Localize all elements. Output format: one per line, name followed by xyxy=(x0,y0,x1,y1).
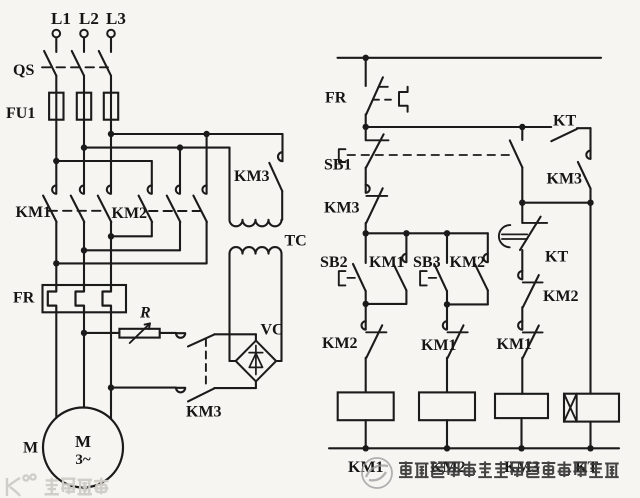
pushbutton SB3 actuator E xyxy=(420,271,427,285)
node A right xyxy=(587,200,593,206)
wire row to SB2 xyxy=(365,233,367,263)
node R tap on phase2 xyxy=(81,330,87,336)
coil KT body xyxy=(564,394,619,422)
wire KM1 pole3 to FR xyxy=(110,222,112,285)
node L3 feeder junction xyxy=(108,131,114,137)
switch QS pole 2 blade xyxy=(72,51,84,76)
node SB2 branch join xyxy=(363,301,369,307)
wire brake contact to VC + terminal xyxy=(214,333,256,335)
svg-text:3~: 3~ xyxy=(75,452,91,468)
KM1 gang dashed link xyxy=(49,210,105,212)
wire L1 fuse to KM1 contact 1 xyxy=(55,120,57,186)
fuse FU1 pole 1 xyxy=(49,93,63,120)
wire KM2 pole1 to phase3 xyxy=(111,235,152,237)
svg-text:KM3: KM3 xyxy=(324,200,360,217)
svg-text:TC: TC xyxy=(285,233,307,250)
transformer TC primary winding xyxy=(230,220,282,227)
contact KM3 (brake upper) fixed hook xyxy=(176,333,185,338)
node bottom rail / KM3 coil xyxy=(518,445,524,451)
pushbutton SB1 NO blade xyxy=(510,140,523,167)
switch QS pole 1 blade xyxy=(44,51,56,76)
resistor R adjustment arrow xyxy=(130,323,150,343)
wire tap down to KM2 contact 3 xyxy=(206,134,208,185)
node phase1 / KM2 join xyxy=(53,260,59,266)
svg-text:R: R xyxy=(139,305,151,322)
KM2 gang dashed link xyxy=(149,210,201,212)
contact KM1 NC fixed hook (braking) xyxy=(518,321,522,329)
wire KM3 coil to bottom rail xyxy=(520,418,522,448)
contact FR seat bar xyxy=(379,86,388,88)
wire QS pole 2 to fuse xyxy=(83,76,85,93)
wire KM3 to TC primary xyxy=(281,191,283,220)
svg-text:VC: VC xyxy=(261,322,284,339)
contact KM2 pole 2 blade xyxy=(167,196,181,222)
wire KM2 aux to join xyxy=(487,291,489,305)
contact KM1 aux blade (NO) xyxy=(394,264,407,290)
contact KM3 aux blade (NO) xyxy=(578,162,591,189)
fuse FU1 pole 3 xyxy=(104,93,118,120)
watermark corner logo xyxy=(7,474,108,496)
wire tap down to KM2 contact 1 xyxy=(151,161,153,185)
wire through fuse 1 xyxy=(55,93,57,120)
svg-text:KM1: KM1 xyxy=(421,337,457,354)
node bottom rail / KM1 coil xyxy=(363,445,369,451)
contact KM3 (brake lower) fixed hook xyxy=(176,388,185,393)
terminal L3 xyxy=(107,30,115,38)
wire node A to KT coil xyxy=(589,203,591,394)
svg-text:SB1: SB1 xyxy=(324,157,352,174)
wire KM1 coil to bottom rail xyxy=(365,420,367,448)
svg-text:KM2: KM2 xyxy=(543,288,579,305)
resistor R body xyxy=(119,329,159,338)
contact KM2 aux fixed hook xyxy=(484,254,488,262)
wire FR to motor (phase1) xyxy=(55,312,57,418)
wire SB2/KM1 bottom join xyxy=(366,303,407,305)
wire KM2 pole3 down xyxy=(206,222,208,263)
contact KM2 pole 2 fixed hook xyxy=(176,185,180,193)
coil KT X-marked cell xyxy=(564,394,577,422)
wire SB1 NO to node A xyxy=(521,167,523,202)
FR heater element 2 xyxy=(76,285,85,312)
contact KM1 pole 2 fixed hook xyxy=(80,185,84,193)
wire R to KM3 braking contact xyxy=(160,332,176,334)
node KM1 aux tap xyxy=(403,230,409,236)
wire lower brake contact to VC - terminal xyxy=(214,387,256,389)
svg-text:L1: L1 xyxy=(51,9,71,28)
pushbutton SB3 blade (NO) xyxy=(434,264,447,291)
contact KM1 pole 1 fixed hook xyxy=(52,185,56,193)
wire to VC left corner xyxy=(230,360,236,362)
svg-text:FR: FR xyxy=(13,290,35,307)
node phase2 / KM2 join xyxy=(81,247,87,253)
wire phase3 to lower brake contact xyxy=(111,387,176,389)
wire control second rail xyxy=(366,126,552,128)
transformer TC secondary winding xyxy=(230,247,282,253)
contact KM3 (brake upper) blade xyxy=(188,334,214,346)
contact KM1 aux fixed hook xyxy=(402,254,406,262)
contact KM2 pole 3 fixed hook xyxy=(202,185,206,193)
node A (braking branch) xyxy=(519,200,525,206)
wire row to SB3 xyxy=(446,233,448,263)
svg-text:KM3: KM3 xyxy=(547,171,583,188)
svg-text:KM2: KM2 xyxy=(322,335,358,352)
contact FR blade (NC) xyxy=(366,77,383,114)
contact KM3 aux fixed hook xyxy=(586,151,590,159)
pushbutton SB1 actuator E xyxy=(339,149,346,162)
node KM2 pole2 tap xyxy=(177,144,183,150)
FR dashed actuator link xyxy=(373,99,396,101)
KT time-delay symbol (cup + chords) xyxy=(499,225,510,247)
wire row to KM1 aux contact xyxy=(405,233,407,254)
node bottom rail / KM2 coil xyxy=(444,445,450,451)
wire FR to motor (phase2) xyxy=(83,312,85,407)
wire L2 fuse to KM1 contact 2 xyxy=(83,120,85,186)
contact KM1 NC seat bar (braking) xyxy=(523,331,543,333)
wire SB3/KM2 bottom join xyxy=(447,303,488,305)
contact KT delayed blade xyxy=(520,217,541,250)
contact KM3 NC blade xyxy=(366,188,383,223)
wire into VC top corner xyxy=(255,334,257,340)
coil KM3 xyxy=(495,394,548,418)
wire SB3 to join xyxy=(446,291,448,305)
wire KM1 aux to join xyxy=(405,291,407,304)
watermark company text xyxy=(399,461,619,477)
SB1 dashed link to NO pole xyxy=(348,154,515,156)
wire row to KM2 aux contact xyxy=(487,233,489,254)
wire join to KM2 interlock xyxy=(365,304,367,321)
contact KM1 NC blade xyxy=(448,325,464,357)
wire node A to KT/KM3 hold branch xyxy=(522,202,590,204)
contact KM2 aux blade (NO) xyxy=(475,264,488,290)
node phase3 / KM2 join xyxy=(108,233,114,239)
svg-text:L2: L2 xyxy=(79,9,99,28)
wire KM3 contact to start row xyxy=(365,223,367,233)
contact SB1 blade (NC) xyxy=(366,134,384,167)
wire rail to SB1 xyxy=(365,127,367,140)
fuse FU1 pole 2 xyxy=(77,93,91,120)
wire KM1 pole1 to FR xyxy=(55,222,57,285)
svg-text:KM1: KM1 xyxy=(16,204,52,221)
motor M circle xyxy=(43,408,123,488)
FR actuator bracket symbol xyxy=(399,87,408,112)
wire KM1 pole2 to FR xyxy=(83,222,85,285)
wire KM2 pole3 to phase1 xyxy=(56,262,206,264)
node SB3 branch join xyxy=(444,301,450,307)
wire down to KM3 aux contact xyxy=(589,128,591,150)
contact KM1 pole 3 blade xyxy=(98,196,112,222)
FR heater element 1 xyxy=(48,285,57,312)
wire KM2 pole2 down xyxy=(179,222,181,250)
contact KM2 pole 1 blade xyxy=(139,196,153,222)
wire interlock to KM3 coil xyxy=(521,358,523,394)
wire from VC bottom corner xyxy=(255,381,257,388)
wire node A to KT delayed contact xyxy=(521,203,523,223)
wire phase L3 feeder (y=134) xyxy=(111,133,283,135)
wire L3 feeder down to KM3 contact xyxy=(281,134,283,152)
contact KM1 pole 3 fixed hook xyxy=(107,185,111,193)
node brake tap on phase3 xyxy=(108,384,114,390)
contact KM2 NC seat bar (braking) xyxy=(523,281,543,283)
contact SB1 seat bar xyxy=(366,139,389,141)
coil KM2 xyxy=(419,392,475,420)
contact KM1 NC seat bar xyxy=(448,331,468,333)
wire L2 feeder to TC primary xyxy=(228,148,230,220)
contact KM3 NC seat bar xyxy=(366,195,387,197)
node start row left xyxy=(363,230,369,236)
wire interlock to KM1 coil xyxy=(365,358,367,393)
node SB3 tap xyxy=(444,230,450,236)
svg-text:KM3: KM3 xyxy=(186,404,222,421)
wire KM2 pole2 to phase2 xyxy=(84,249,180,251)
SB3 actuator dash xyxy=(429,277,437,279)
wire TC secondary left to VC xyxy=(228,254,230,361)
contact KM1 pole 2 blade xyxy=(71,196,85,222)
contact KM2 NC blade (braking) xyxy=(523,275,539,307)
wire phase L1 feeder (y=161) xyxy=(56,160,152,162)
wire KM2 coil to bottom rail xyxy=(446,420,448,448)
wire control top rail L xyxy=(338,57,602,59)
node L1 feeder junction xyxy=(53,158,59,164)
contact KM3 (brake lower) blade xyxy=(188,388,214,401)
node KM2 pole3 tap xyxy=(203,131,209,137)
thermal relay FR box xyxy=(43,285,127,312)
FR heater element 3 xyxy=(103,285,112,312)
contact KM2 NC fixed hook xyxy=(362,321,366,329)
wire to resistor R xyxy=(84,332,119,334)
rectifier bridge VC diamond xyxy=(236,341,276,382)
wire join to KM1 interlock xyxy=(446,304,448,321)
wire QS pole 3 to fuse xyxy=(110,76,112,93)
contact KM1 NC blade (braking) xyxy=(523,326,539,358)
svg-text:M: M xyxy=(75,432,91,451)
contact KM2 NC seat bar xyxy=(366,331,386,333)
wire SB2 to join xyxy=(365,291,367,304)
switch QS pole 3 blade xyxy=(99,51,111,76)
svg-text:KM2: KM2 xyxy=(450,254,486,271)
wire control bottom rail xyxy=(329,447,619,449)
wire QS pole 1 to fuse xyxy=(55,76,57,93)
wire through fuse 3 xyxy=(110,93,112,120)
contact KM3 NC fixed hook xyxy=(366,185,370,193)
node L2 feeder junction xyxy=(81,144,87,150)
contact KM2 NC blade xyxy=(366,325,382,357)
watermark logo circle xyxy=(362,458,392,488)
node top rail / FR branch xyxy=(363,55,369,61)
wire KT coil to bottom rail xyxy=(589,422,591,449)
rectifier VC diode symbol xyxy=(249,346,263,375)
wire KT contact to KM2 interlock xyxy=(521,250,523,271)
wire KM3 aux to node A xyxy=(589,189,591,203)
wire phase L2 feeder (y=148) xyxy=(84,147,230,149)
svg-text:KT: KT xyxy=(545,249,568,266)
KM3 brake contacts dashed gang link xyxy=(205,339,207,386)
wire SB1 to KM3 contact xyxy=(365,168,367,185)
terminal L2 xyxy=(80,30,88,38)
contact KT delayed seat bar xyxy=(522,222,547,224)
QS gang dashed link xyxy=(42,66,108,68)
node second rail / main branch xyxy=(363,124,369,130)
wire FR to motor (phase3) xyxy=(110,312,112,419)
contact KM2 NC fixed hook (braking) xyxy=(518,271,522,279)
contact KM1 pole 1 blade xyxy=(43,196,57,222)
svg-text:KM2: KM2 xyxy=(112,205,148,222)
terminal L1 xyxy=(53,30,61,38)
wire to VC right corner xyxy=(276,360,282,362)
svg-text:KM3: KM3 xyxy=(234,168,270,185)
contact KT aux blade (NO) xyxy=(551,129,577,141)
wire KT contact corner xyxy=(577,127,591,129)
svg-text:SB2: SB2 xyxy=(320,254,348,271)
pushbutton SB2 blade (NO) xyxy=(353,264,366,291)
pushbutton SB2 actuator E xyxy=(339,271,346,285)
wire start-button row xyxy=(366,232,488,234)
svg-text:M: M xyxy=(23,440,38,457)
wire L3 fuse to KM1 contact 3 xyxy=(110,120,112,186)
wire KM2 pole1 down xyxy=(151,222,153,236)
wire FR contact to second rail xyxy=(365,114,367,127)
node second rail / SB1-NO branch xyxy=(519,124,525,130)
wire to KM1 interlock xyxy=(521,307,523,321)
contact KM2 pole 3 blade xyxy=(193,196,207,222)
contact KM3 (TC primary) blade xyxy=(269,163,282,191)
wire tap down to KM2 contact 2 xyxy=(179,148,181,186)
wire TC secondary right to VC xyxy=(280,254,282,361)
svg-text:KM1: KM1 xyxy=(497,336,533,353)
wire interlock to KM2 coil xyxy=(446,358,448,393)
node bottom rail / KT coil xyxy=(587,445,593,451)
svg-text:KT: KT xyxy=(553,113,576,130)
contact KM2 pole 1 fixed hook xyxy=(148,185,152,193)
wire rail to FR contact xyxy=(365,58,367,86)
SB2 actuator dash xyxy=(347,277,355,279)
svg-text:KM1: KM1 xyxy=(348,459,384,476)
wire rail to SB1 NO pole xyxy=(521,127,523,140)
svg-text:FR: FR xyxy=(325,90,347,107)
svg-text:FU1: FU1 xyxy=(6,105,35,122)
coil KM1 xyxy=(338,392,394,420)
contact KM1 NC fixed hook xyxy=(443,321,447,329)
wire through fuse 2 xyxy=(83,93,85,120)
svg-text:QS: QS xyxy=(13,62,34,79)
svg-text:SB3: SB3 xyxy=(413,254,441,271)
svg-text:KM1: KM1 xyxy=(369,254,405,271)
svg-text:L3: L3 xyxy=(106,9,126,28)
contact KM3 (TC primary) fixed hook xyxy=(278,152,283,161)
